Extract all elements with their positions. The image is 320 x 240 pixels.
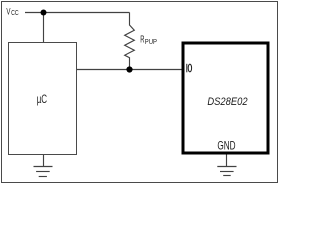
svg-text:GND: GND [217,139,235,153]
svg-text:PUP: PUP [145,37,157,46]
svg-text:DS28E02: DS28E02 [207,96,247,108]
svg-text:CC: CC [11,10,19,17]
svg-text:µC: µC [37,94,47,106]
svg-text:R: R [140,35,144,46]
